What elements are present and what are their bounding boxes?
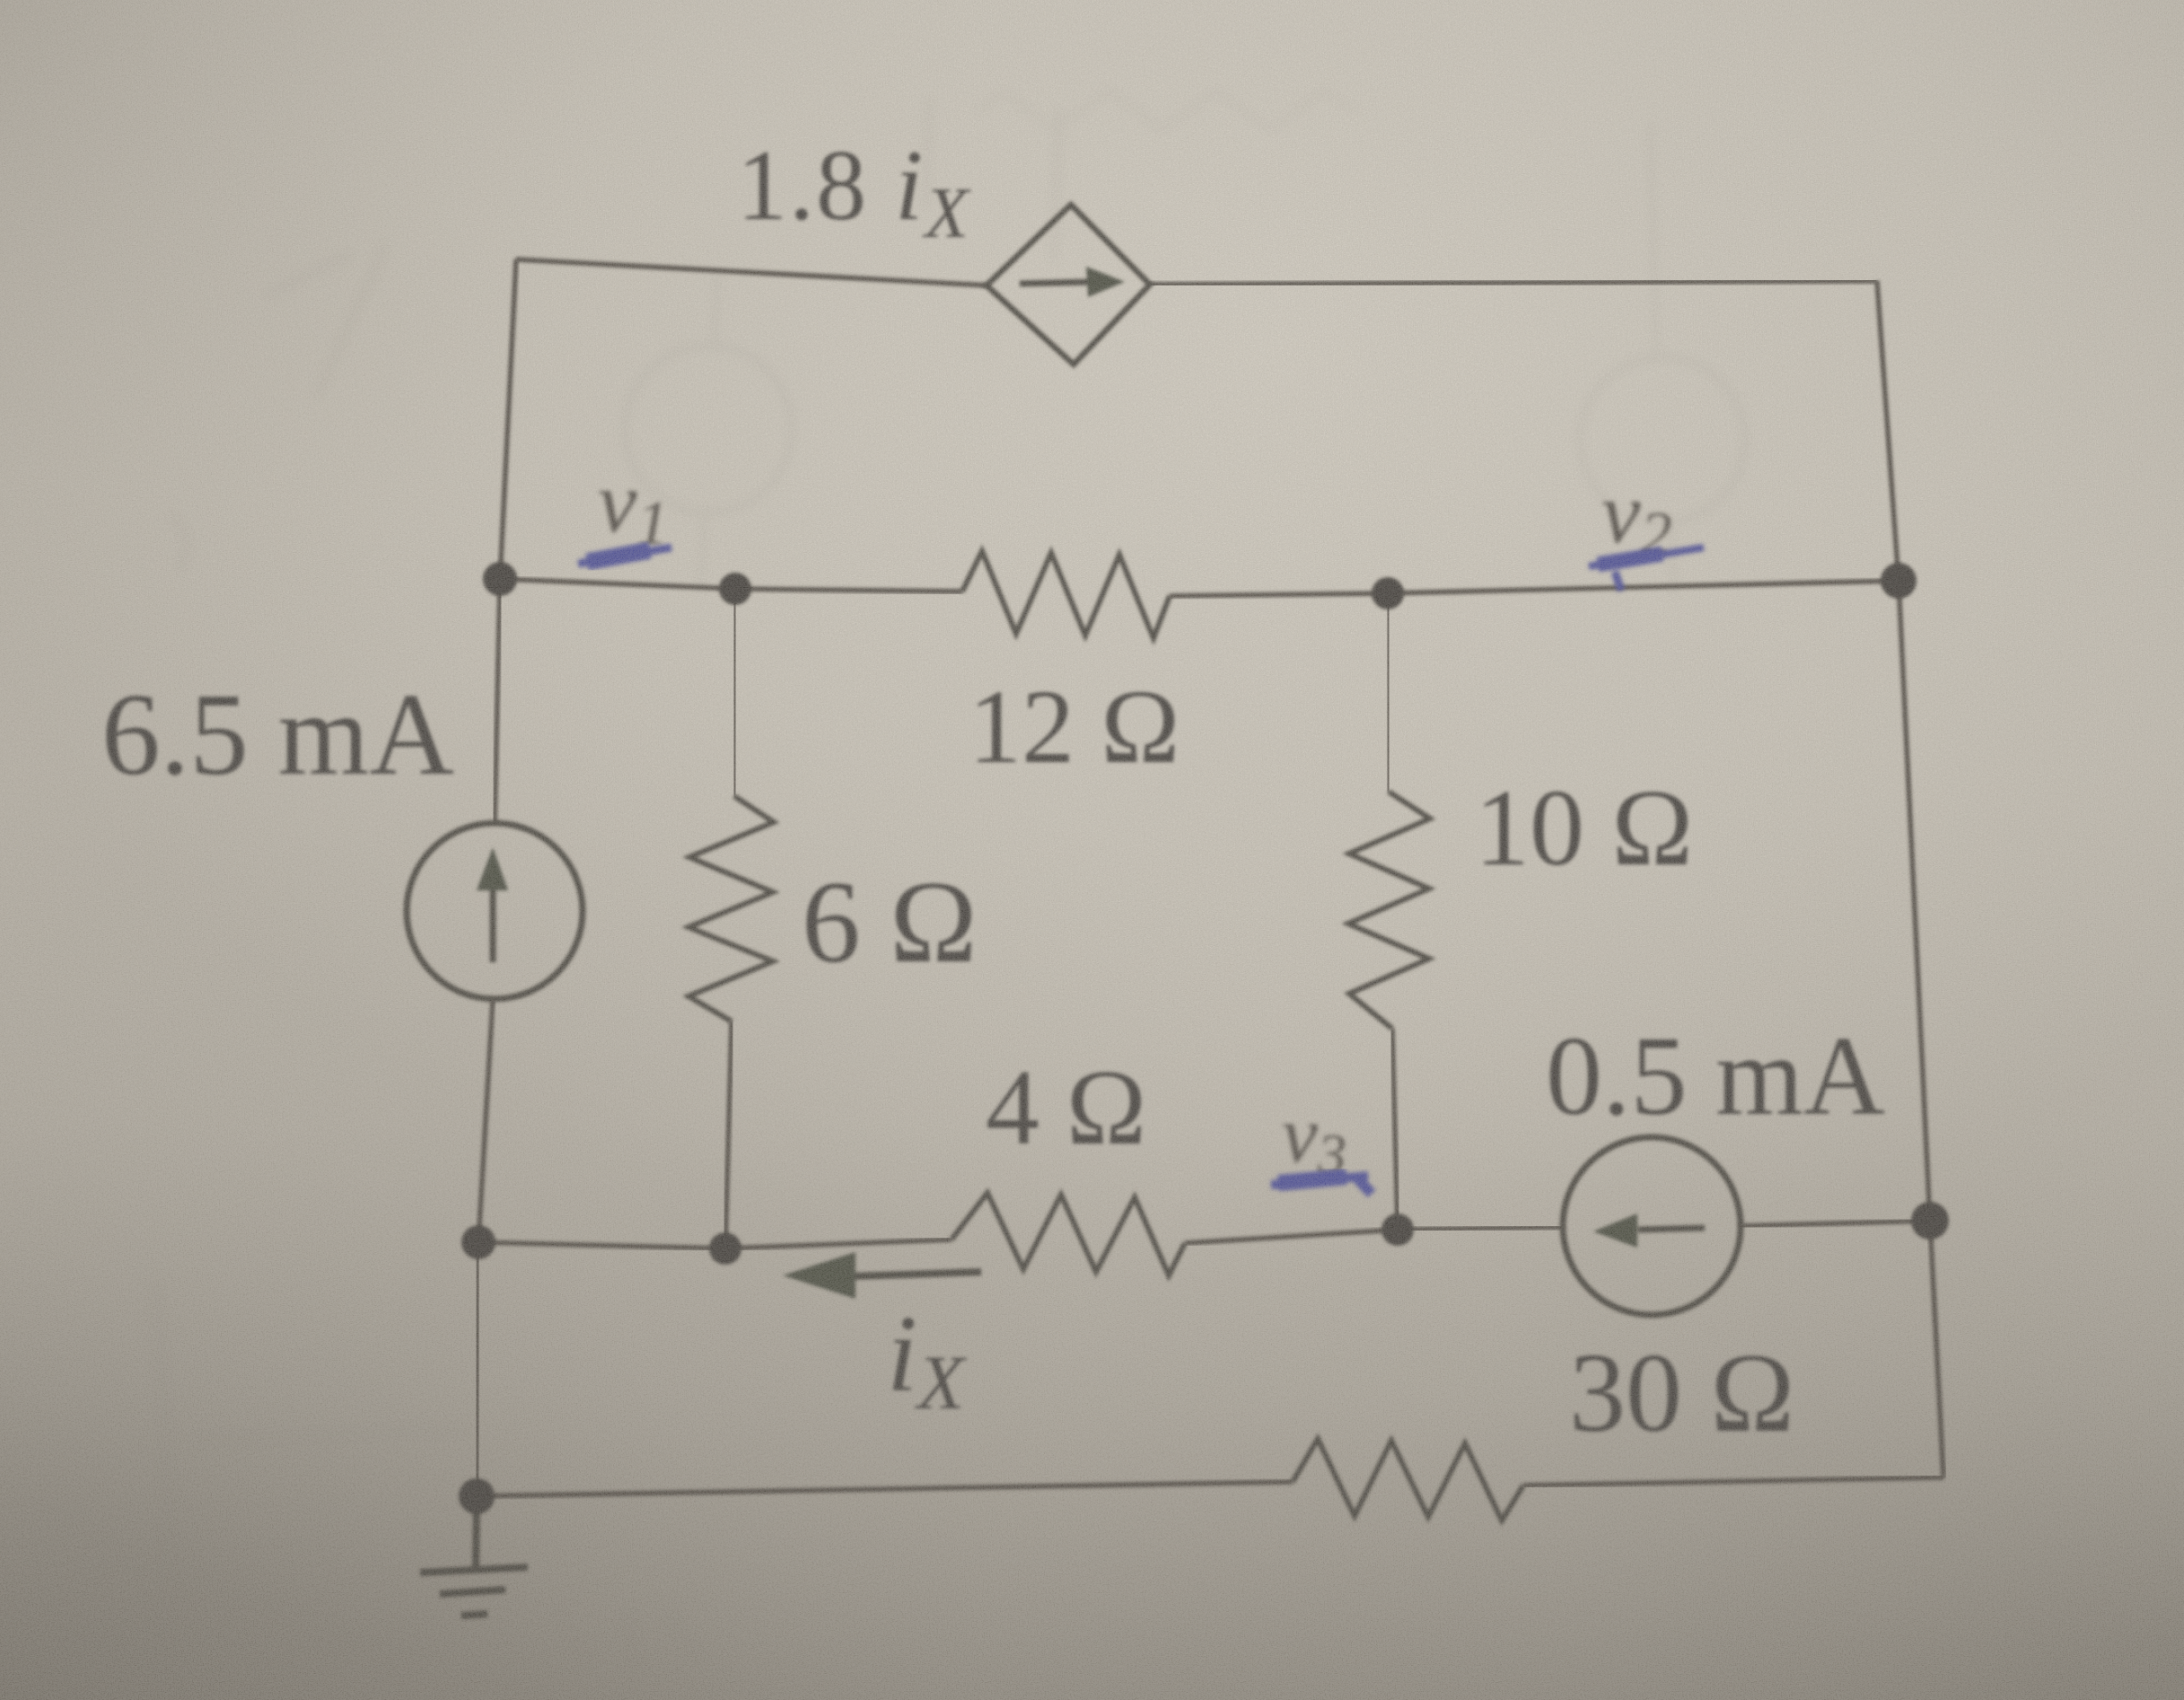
- wire: right edge (v2 node down to 0.5mA row node): [1899, 581, 1930, 1221]
- independent current source 0.5 mA (circle): [1563, 1137, 1741, 1315]
- wire: left branch from bottom-left node down to ground node: [477, 1242, 478, 1496]
- label 6.5 mA: [101, 670, 454, 800]
- wire: 10 ohm branch lower lead to v3 node: [1392, 1029, 1398, 1230]
- node v2 (junction dot): [1881, 563, 1916, 599]
- arrow inside 0.5mA source (points left): [1593, 1214, 1705, 1248]
- blue underline under v1: [578, 548, 671, 564]
- label 12 ohm: [969, 668, 1180, 785]
- label 4 ohm: [986, 1047, 1146, 1167]
- dependent current source diamond 1.8ix: [987, 205, 1150, 364]
- node v1 (junction dot): [483, 562, 517, 596]
- faint bleed-through circle (right, back of page): [1580, 121, 1745, 597]
- label ix: [887, 1293, 968, 1425]
- ground symbol: [420, 1496, 528, 1616]
- wire: top-right horizontal (from dependent source to corner): [1150, 281, 1877, 285]
- wire: v3 row from 4 ohm to v3 node: [1185, 1230, 1398, 1243]
- resistor 30 ohm (horizontal zigzag): [1293, 1439, 1523, 1520]
- wire: 6 ohm branch upper lead: [734, 589, 735, 796]
- label 10 ohm: [1475, 767, 1693, 889]
- wire: right edge (top corner down to v2 node): [1877, 281, 1899, 581]
- wire: bottom row right segment (30 ohm to bottom-right corner): [1523, 1477, 1943, 1485]
- node label v1 (blue ink): [598, 454, 669, 558]
- node: 6 ohm top junction: [719, 573, 751, 605]
- wire: 6 ohm branch lower lead: [725, 1021, 732, 1249]
- wire: left branch from v1 node to 6.5mA source: [495, 579, 500, 823]
- label 0.5 mA: [1546, 1014, 1885, 1139]
- label 30 ohm: [1569, 1331, 1794, 1456]
- blue underline under v2: [1589, 548, 1704, 591]
- wire: v1 row right of 12 ohm to node, then to v2 node: [1170, 581, 1899, 596]
- wire: v1 row left segment: [500, 579, 962, 591]
- resistor 10 ohm (vertical zigzag): [1348, 792, 1430, 1029]
- blue underline under v3: [1271, 1176, 1372, 1194]
- node: ground junction: [459, 1478, 495, 1514]
- node: 6 ohm bottom junction: [709, 1232, 741, 1265]
- node: right edge 0.5mA row junction: [1911, 1202, 1949, 1240]
- node: bottom-left junction: [461, 1225, 496, 1259]
- arrow inside 6.5mA source (points up): [477, 847, 508, 962]
- wire: left branch from 6.5mA source down to bottom-left node: [478, 999, 493, 1242]
- current arrow ix (points left, under 4 ohm): [783, 1252, 981, 1299]
- independent current source 6.5 mA (circle): [407, 823, 583, 999]
- wire: 10 ohm branch upper lead: [1388, 593, 1389, 792]
- wire: right edge (0.5mA row node down to bottom corner): [1930, 1221, 1943, 1477]
- node: 10 ohm top junction: [1372, 577, 1404, 609]
- label 6 ohm: [802, 857, 978, 987]
- label 1.8 ix: [737, 130, 971, 253]
- node v3 (junction dot): [1381, 1214, 1414, 1246]
- resistor 12 ohm (horizontal zigzag): [962, 551, 1170, 638]
- wire: bottom row left segment (ground node to 30 ohm): [477, 1482, 1293, 1496]
- wire: top-left horizontal (to dependent source): [516, 259, 987, 285]
- node label v3 (blue ink): [1282, 1091, 1346, 1186]
- faint bleed-through smudges: [154, 91, 1358, 1665]
- wire: v3 node to 0.5mA source: [1398, 1227, 1563, 1230]
- faint bleed-through circle (left, back of page): [625, 269, 792, 592]
- wire: left edge vertical (top corner down to node v1): [500, 259, 516, 579]
- node label v2 (blue ink): [1601, 465, 1672, 569]
- wire: v3 row left segment: [478, 1240, 952, 1249]
- arrow inside diamond (points right): [1020, 267, 1125, 297]
- wire: 0.5mA source to right edge node: [1741, 1221, 1930, 1226]
- resistor 4 ohm (horizontal zigzag): [952, 1193, 1185, 1275]
- resistor 6 ohm (vertical zigzag): [689, 796, 774, 1021]
